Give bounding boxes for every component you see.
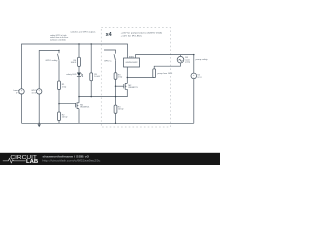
wire R6 to LED xyxy=(78,66,80,72)
svg-text:pump safety: pump safety xyxy=(196,58,209,61)
wire M2 drain to box pin xyxy=(126,67,128,83)
svg-text:GPIO a: GPIO a xyxy=(104,60,112,62)
ground bus xyxy=(22,122,194,124)
relay box U1 xyxy=(124,58,140,67)
svg-text:switches are GPIO outputs: switches are GPIO outputs xyxy=(70,30,96,33)
motor M3 xyxy=(180,55,182,57)
svg-text:100 Ω: 100 Ω xyxy=(71,62,77,64)
wire top bus xyxy=(22,44,128,89)
svg-text:pump fuse 10 Ω: pump fuse 10 Ω xyxy=(158,73,173,75)
wire R2 to gnd xyxy=(58,121,60,124)
resistor R6 column xyxy=(78,44,80,57)
switch SW2 xyxy=(114,54,116,72)
junction dots xyxy=(78,43,79,44)
svg-text:G3VM-61GR2: G3VM-61GR2 xyxy=(126,62,138,64)
dashed repeat box x4 xyxy=(101,27,170,127)
wire LED to drain node xyxy=(78,77,80,103)
resistor R3 xyxy=(114,73,117,80)
voltage source V2 xyxy=(37,89,42,94)
resistor R7 xyxy=(154,63,180,77)
svg-text:1 kΩ: 1 kΩ xyxy=(118,77,123,79)
svg-text:+24V for pumps/valves (3x8/5V: +24V for pumps/valves (3x8/5V 19-B) xyxy=(121,31,163,34)
resistor R4 xyxy=(114,105,117,113)
svg-text:12 V: 12 V xyxy=(197,77,202,79)
wire V1 V2 to ground bus xyxy=(22,94,40,123)
mosfet M2 xyxy=(124,83,128,89)
svg-text:10 kΩ: 10 kΩ xyxy=(62,117,68,119)
svg-text:http://circuitlab.com/c/8f52aa: http://circuitlab.com/c/8f52aa9ac25c xyxy=(42,159,101,163)
wire M1 source to gnd xyxy=(78,109,80,124)
wire box pin2 to motor line xyxy=(136,55,194,74)
resistor R5 xyxy=(90,73,93,81)
wire box bottom to R7 bottom xyxy=(127,77,154,79)
svg-text:1 kΩ: 1 kΩ xyxy=(62,86,67,88)
resistor R6 xyxy=(78,57,81,66)
svg-text:10 kΩ: 10 kΩ xyxy=(118,109,124,111)
mosfet M2 gate wire xyxy=(116,85,124,87)
svg-text:IRLB8721: IRLB8721 xyxy=(128,87,138,89)
svg-text:3.3 V: 3.3 V xyxy=(32,92,37,94)
svg-text:+12V for IR LEDs: +12V for IR LEDs xyxy=(121,35,143,38)
svg-text:safety LED: safety LED xyxy=(66,73,77,76)
wire R3 down through nodes xyxy=(115,79,117,105)
mosfet M1 xyxy=(76,102,79,108)
node line drain xyxy=(79,89,127,96)
box column input wire xyxy=(104,50,116,54)
voltage source V1 xyxy=(19,89,24,94)
footer bar xyxy=(0,153,220,165)
svg-text:(software controlled): (software controlled) xyxy=(50,39,66,42)
svg-text:IRLB8721: IRLB8721 xyxy=(80,107,90,109)
battery V3 xyxy=(191,73,197,79)
wire battery to gnd bus xyxy=(193,79,195,124)
resistor R5 column xyxy=(90,44,92,73)
svg-text:GPIO safety: GPIO safety xyxy=(45,59,58,62)
svg-text:x4: x4 xyxy=(106,32,112,38)
ground xyxy=(38,124,41,127)
svg-text:SSR1: SSR1 xyxy=(129,57,135,59)
LED D1 xyxy=(77,73,81,77)
resistor R2 xyxy=(58,112,61,121)
wire gpio 3.3 line xyxy=(39,51,59,89)
svg-text:10 kΩ: 10 kΩ xyxy=(94,76,100,78)
wire gate column xyxy=(59,90,76,113)
switch SW1 xyxy=(58,51,60,82)
svg-text:LAB: LAB xyxy=(26,159,38,165)
resistor R1 xyxy=(58,81,61,90)
svg-text:pump: pump xyxy=(185,61,190,63)
